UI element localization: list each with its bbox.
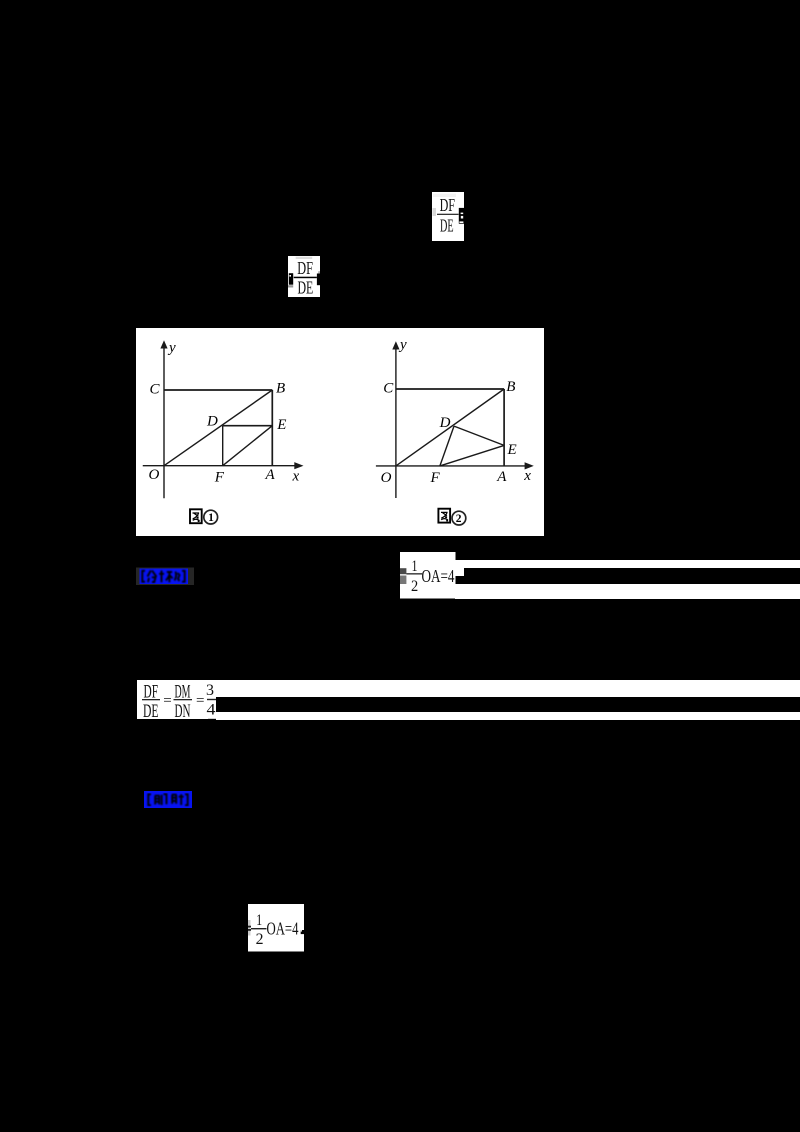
caption 图2: [438, 508, 450, 522]
blue label 1: [136, 567, 194, 591]
svg-text:DF: DF: [440, 195, 456, 215]
white strip right of equation 1 (lower): [455, 584, 800, 599]
white connector tab: [455, 568, 464, 576]
svg-text:B: B: [276, 380, 285, 396]
svg-text:2: 2: [255, 931, 263, 948]
left FE diagonal: [223, 425, 273, 465]
svg-text:x: x: [292, 468, 300, 484]
right diagram axes: [395, 347, 397, 498]
right rect OABC: [396, 388, 504, 390]
svg-text:1: 1: [412, 558, 418, 575]
svg-text:E: E: [276, 417, 286, 433]
equation 1: =1/2 OA=4 with side strips: [400, 552, 456, 604]
svg-text:1: 1: [208, 512, 214, 524]
labels left: [149, 340, 300, 485]
svg-text:B: B: [506, 379, 515, 395]
clipped black glyph at right edge: [459, 208, 464, 224]
labels right: [381, 336, 532, 485]
svg-text:OA=4: OA=4: [266, 919, 298, 939]
svg-text:DF: DF: [297, 258, 313, 278]
figure image with two diagrams: [136, 328, 544, 542]
svg-text:O: O: [381, 470, 392, 486]
clipped glyph right edge: [317, 273, 320, 285]
left diagram axes: [163, 347, 165, 498]
equation 3: =1/2 OA=4,: [248, 904, 304, 957]
right diagonal OB: [396, 389, 504, 466]
clipped glyph left edge: [289, 273, 293, 284]
svg-text:2: 2: [411, 578, 418, 595]
left rect OABC: [164, 389, 272, 391]
svg-text:C: C: [383, 380, 394, 396]
right triangle DEF: [454, 426, 504, 445]
svg-text:=: =: [163, 693, 171, 709]
white strip right of formula row (upper): [216, 680, 800, 697]
svg-text:A: A: [265, 467, 276, 483]
fraction image DF/DE (second line): [288, 256, 320, 303]
left DF vertical: [222, 425, 224, 465]
svg-text:E: E: [507, 442, 517, 458]
svg-text:A: A: [496, 469, 507, 485]
svg-text:C: C: [150, 381, 161, 397]
svg-text:DN: DN: [174, 701, 190, 720]
white strip right of formula row (lower): [216, 712, 800, 720]
svg-text:3: 3: [206, 682, 214, 699]
fraction image DF/DE (top line): [432, 192, 464, 246]
svg-text:DE: DE: [143, 701, 159, 720]
svg-text:y: y: [167, 340, 176, 356]
svg-text:F: F: [430, 470, 441, 486]
left DE horizontal: [223, 424, 273, 426]
svg-text:DE: DE: [297, 277, 313, 297]
formula row DF/DE=DM/DN=3/4: [137, 680, 217, 725]
svg-text:=: =: [196, 693, 204, 709]
svg-text:D: D: [206, 413, 218, 429]
svg-text:y: y: [398, 336, 407, 352]
svg-text:DE: DE: [440, 215, 454, 235]
svg-text:F: F: [214, 469, 225, 485]
arrowheads: [160, 340, 167, 348]
left diagonal OB: [164, 390, 272, 466]
svg-text:4: 4: [206, 701, 215, 718]
svg-text:2: 2: [456, 513, 462, 525]
svg-text:O: O: [149, 467, 160, 483]
blue label 2: [144, 791, 192, 813]
caption 图1: [190, 509, 202, 523]
svg-text:1: 1: [256, 912, 262, 929]
svg-text:D: D: [439, 415, 451, 431]
svg-text:OA=4: OA=4: [422, 566, 455, 586]
white strip right of equation 1 (upper): [455, 560, 800, 568]
svg-text:x: x: [523, 467, 531, 483]
